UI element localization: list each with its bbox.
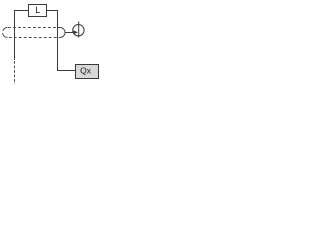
dashed boundary stadium (linkage) <box>8 27 60 29</box>
dashed boundary stadium left cap <box>3 28 8 38</box>
wire to actuator <box>65 32 74 34</box>
component box L <box>29 5 47 17</box>
svg-text:Qx: Qx <box>80 66 92 76</box>
dashed boundary stadium right cap <box>60 28 65 38</box>
svg-text:L: L <box>35 5 40 15</box>
actuator circle <box>73 25 84 36</box>
wire left branch (from L box left, down) <box>15 11 29 61</box>
actuator arrowhead <box>73 30 78 34</box>
switch box Qx <box>76 65 99 79</box>
actuator shaft (vertical) <box>78 22 80 38</box>
wire right branch (from L box right, down to Qx box) <box>47 11 76 71</box>
dashed boundary stadium bottom <box>8 37 60 39</box>
wire dashed continuation downward <box>14 61 16 84</box>
